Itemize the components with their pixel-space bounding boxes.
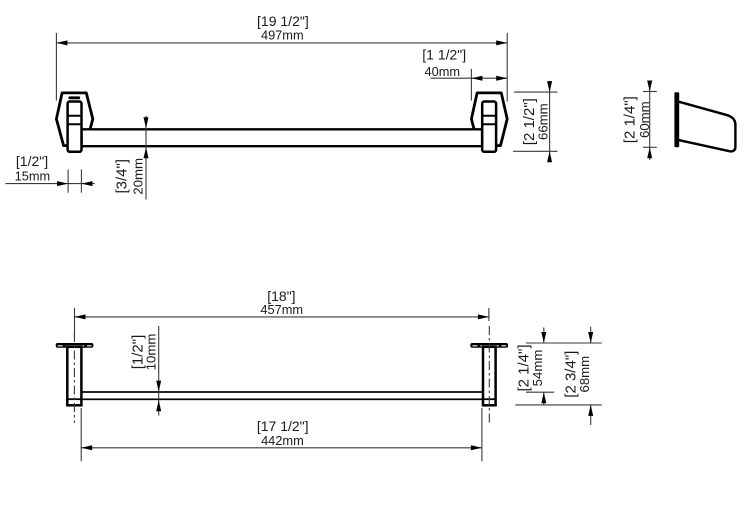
- svg-text:68mm: 68mm: [577, 356, 592, 393]
- svg-text:15mm: 15mm: [15, 169, 51, 184]
- svg-text:66mm: 66mm: [535, 103, 550, 140]
- svg-text:40mm: 40mm: [425, 64, 461, 79]
- svg-text:60mm: 60mm: [637, 101, 652, 138]
- svg-text:[17 1/2"]: [17 1/2"]: [257, 418, 309, 434]
- svg-text:[19 1/2"]: [19 1/2"]: [257, 13, 309, 29]
- svg-text:10mm: 10mm: [144, 334, 159, 371]
- svg-text:457mm: 457mm: [260, 302, 303, 317]
- svg-text:[1/2"]: [1/2"]: [16, 153, 48, 169]
- svg-text:442mm: 442mm: [261, 433, 304, 448]
- svg-text:54mm: 54mm: [530, 350, 545, 387]
- svg-text:[1 1/2"]: [1 1/2"]: [422, 47, 466, 63]
- svg-text:497mm: 497mm: [261, 28, 304, 43]
- svg-text:20mm: 20mm: [131, 158, 146, 195]
- svg-text:[3/4"]: [3/4"]: [113, 159, 130, 194]
